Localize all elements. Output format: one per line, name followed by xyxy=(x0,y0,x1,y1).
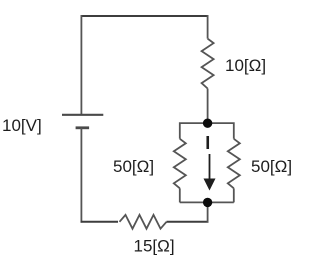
battery V1 short plate xyxy=(76,126,90,129)
svg-text:50[Ω]: 50[Ω] xyxy=(251,157,292,176)
current arrow I xyxy=(204,154,216,191)
wire right branch lower stub xyxy=(233,188,235,202)
resistor 50[Ω] left branch xyxy=(174,139,186,189)
svg-text:I: I xyxy=(205,133,210,153)
svg-text:15[Ω]: 15[Ω] xyxy=(134,237,175,256)
resistor 15[Ω] zigzag xyxy=(120,215,167,229)
svg-text:10[V]: 10[V] xyxy=(2,116,42,135)
wire top rail xyxy=(81,15,209,17)
wire left rail top xyxy=(80,15,82,115)
resistor 10[Ω] zigzag xyxy=(202,39,214,89)
wire parallel top rail xyxy=(180,123,234,139)
resistor 50[Ω] right branch xyxy=(228,139,240,189)
node A top junction xyxy=(203,119,212,128)
wire bottom rail left xyxy=(81,221,119,223)
node B bottom junction xyxy=(203,198,212,207)
wire 10ohm to node A xyxy=(207,89,209,124)
wire left rail bottom xyxy=(80,128,82,223)
svg-text:10[Ω]: 10[Ω] xyxy=(225,56,266,75)
svg-text:50[Ω]: 50[Ω] xyxy=(113,157,154,176)
wire left branch lower stub xyxy=(179,188,181,202)
wire riser bottom node xyxy=(207,202,209,222)
wire parallel bottom rail xyxy=(180,201,234,203)
wire right rail top xyxy=(207,15,209,39)
wire bottom rail right xyxy=(167,221,209,223)
battery V1 long plate xyxy=(62,114,103,116)
